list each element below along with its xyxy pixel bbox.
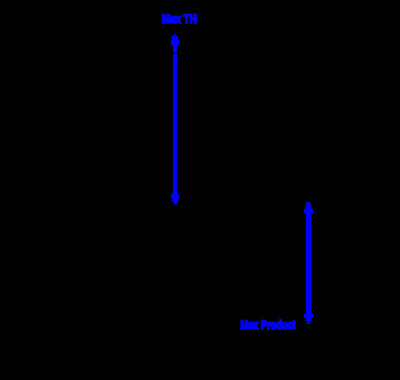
arrow left (double-headed vertical) <box>171 34 179 205</box>
svg-text:Max Product: Max Product <box>241 318 296 332</box>
top arrowhead <box>174 34 176 37</box>
shaft <box>306 213 311 314</box>
shaft <box>173 54 177 194</box>
bottom arrowhead <box>304 314 313 318</box>
arrow right (double-headed vertical) <box>304 202 313 324</box>
bottom arrowhead <box>171 194 179 198</box>
svg-text:Max TH: Max TH <box>162 12 197 26</box>
top arrowhead <box>307 202 311 205</box>
